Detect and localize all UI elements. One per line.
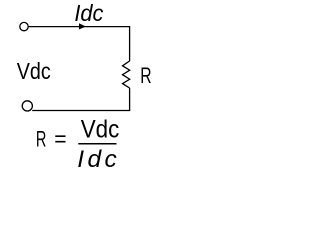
wire top horizontal: [29, 26, 130, 28]
arrow current direction: [79, 23, 86, 29]
svg-text:Vdc: Vdc: [17, 58, 51, 84]
svg-text:Idc: Idc: [77, 146, 120, 173]
terminal T2 (bottom left open circle): [22, 101, 32, 111]
formula fraction bar: [78, 143, 116, 145]
svg-text:=: =: [54, 127, 66, 152]
svg-text:R: R: [140, 63, 151, 88]
wire right vertical top: [129, 26, 131, 61]
wire right vertical bottom: [129, 88, 131, 111]
svg-text:Vdc: Vdc: [81, 116, 120, 144]
resistor R1 zigzag: [123, 61, 130, 88]
svg-text:R: R: [36, 126, 47, 151]
terminal T1 (top left open circle): [20, 22, 28, 30]
wire bottom horizontal: [32, 110, 130, 112]
svg-text:Idc: Idc: [74, 0, 103, 26]
